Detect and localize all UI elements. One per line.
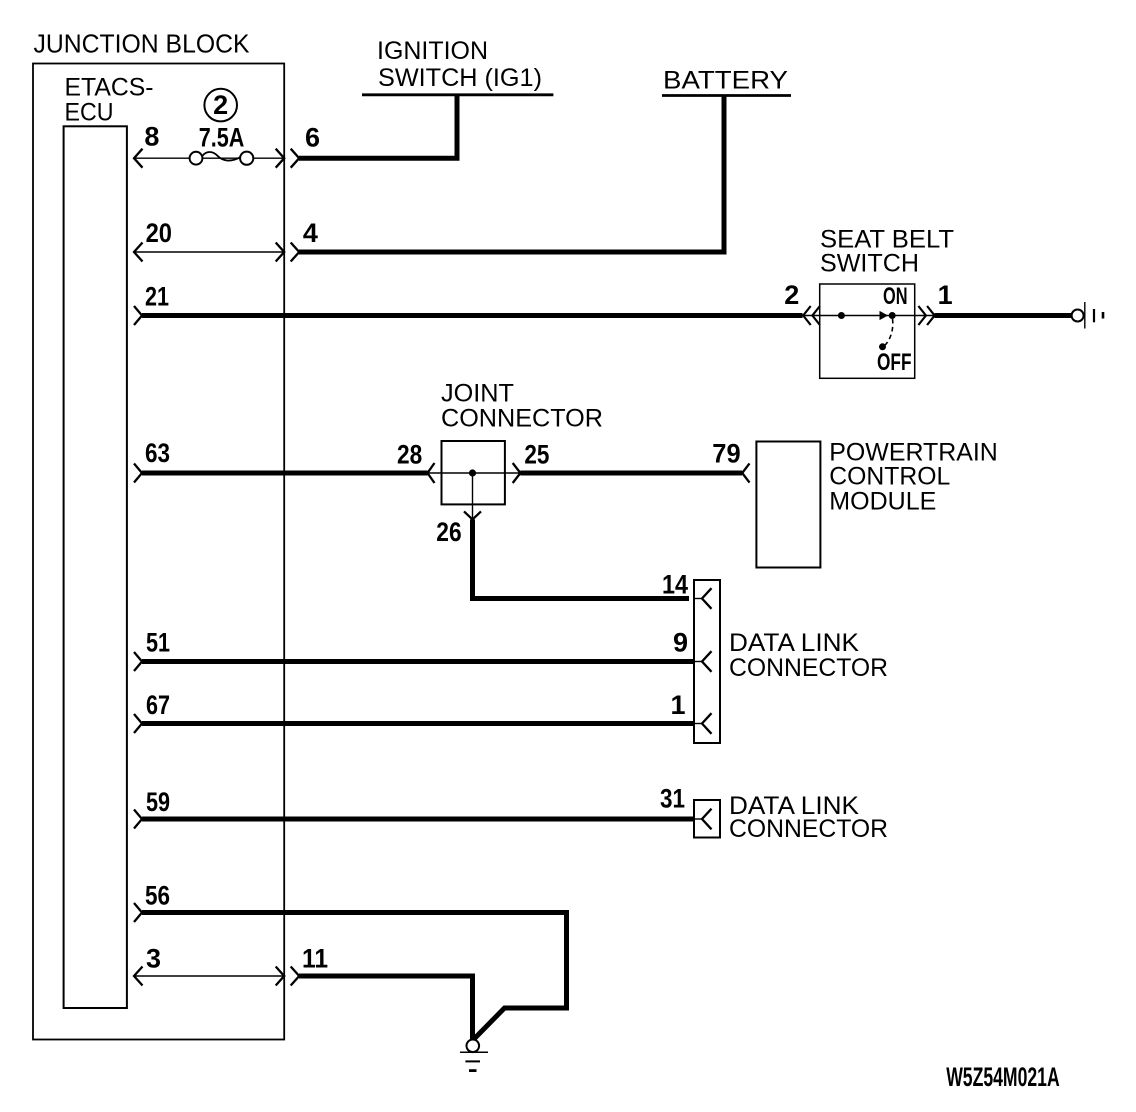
switch contact dot ON xyxy=(889,312,896,319)
data link connector box C2 xyxy=(694,580,720,743)
arrowhead joint connector pin 28 xyxy=(428,463,435,483)
thick wire pin 4 to battery xyxy=(299,96,724,253)
svg-text:26: 26 xyxy=(436,517,461,547)
thick wire pin 51 to DLC pin 9 xyxy=(142,659,694,664)
svg-text:CONTROL: CONTROL xyxy=(829,463,950,491)
svg-text:CONNECTOR: CONNECTOR xyxy=(729,815,888,843)
arrowhead DLC pin 1 xyxy=(694,723,702,725)
joint connector junction dot xyxy=(469,469,476,476)
thin wire joint connector pin 26 xyxy=(472,476,474,519)
svg-text:DATA LINK: DATA LINK xyxy=(729,629,859,657)
pin 51 chevron at ETACS xyxy=(134,652,142,671)
wire pin20 to junction-block edge xyxy=(134,251,284,253)
thin wire through joint connector xyxy=(428,472,521,474)
thin wire through seat belt switch xyxy=(803,315,936,317)
thick wire pin 67 to DLC pin 1 xyxy=(142,721,694,726)
thick wire pin 11 to ground xyxy=(299,976,473,1039)
arrowhead pin 26 xyxy=(464,511,481,519)
svg-text:21: 21 xyxy=(145,282,169,312)
svg-text:56: 56 xyxy=(145,881,170,911)
svg-text:20: 20 xyxy=(146,218,172,248)
junction block box xyxy=(33,64,284,1040)
arrowhead at ETACS pin 8 xyxy=(134,149,143,168)
arrowhead pair at junction-block edge (row 8) xyxy=(276,149,285,168)
wire pin8 to junction-block edge (fuse row) xyxy=(134,157,284,159)
svg-text:ETACS-: ETACS- xyxy=(65,74,154,102)
svg-text:7.5A: 7.5A xyxy=(199,123,245,153)
arrowhead pair at junction-block edge (row 3) xyxy=(276,967,285,986)
arrowhead at ETACS pin 3 xyxy=(134,967,143,986)
thick wire pin 63 to joint connector xyxy=(142,471,428,476)
thick wire pin 59 to data link connector pin 31 xyxy=(142,817,694,822)
svg-text:3: 3 xyxy=(146,944,161,974)
svg-text:28: 28 xyxy=(397,440,422,470)
thick wire pin 1 to ground xyxy=(935,313,1072,318)
dashed OFF throw xyxy=(884,319,893,346)
svg-text:8: 8 xyxy=(144,122,159,152)
svg-text:OFF: OFF xyxy=(877,349,912,376)
arrowhead joint connector pin 25 xyxy=(513,463,521,483)
svg-text:CONNECTOR: CONNECTOR xyxy=(441,405,603,433)
data link connector box C3 xyxy=(694,800,720,838)
ETACS-ECU box U1 xyxy=(64,126,127,1008)
fuse number circled 2 xyxy=(204,89,237,122)
arrowhead pair at junction-block edge (row 20) xyxy=(276,243,285,262)
svg-text:1: 1 xyxy=(671,690,686,720)
svg-text:IGNITION: IGNITION xyxy=(377,37,488,65)
svg-text:9: 9 xyxy=(673,628,688,658)
svg-text:JOINT: JOINT xyxy=(441,380,514,408)
svg-text:51: 51 xyxy=(146,628,170,658)
wire pin3 to junction-block edge xyxy=(134,975,284,977)
fuse F2 7.5A xyxy=(190,152,203,165)
body ground (right) xyxy=(1072,310,1084,322)
inline connector chevrons left of seat belt switch xyxy=(803,306,811,325)
pin 21 chevron at ETACS xyxy=(134,306,142,325)
thick wire pin 25 to PCM pin 79 xyxy=(520,471,742,476)
svg-text:59: 59 xyxy=(146,787,170,817)
svg-text:2: 2 xyxy=(213,90,228,120)
switch contact dot OFF xyxy=(879,343,886,350)
switch contact dot left xyxy=(838,312,845,319)
thick wire pin 26 to data link connector pin 14 xyxy=(473,519,690,598)
svg-text:11: 11 xyxy=(302,944,328,974)
svg-text:JUNCTION BLOCK: JUNCTION BLOCK xyxy=(34,28,251,58)
thick wire pin 6 to ignition switch xyxy=(299,95,457,158)
ground xyxy=(467,1040,480,1053)
svg-text:79: 79 xyxy=(712,439,740,469)
ignition switch terminal bar xyxy=(362,93,553,96)
pin 56 chevron at ETACS xyxy=(134,903,142,922)
svg-text:ECU: ECU xyxy=(65,99,114,127)
svg-text:25: 25 xyxy=(524,440,549,470)
svg-text:SWITCH (IG1): SWITCH (IG1) xyxy=(378,64,542,92)
svg-text:BATTERY: BATTERY xyxy=(663,67,788,95)
svg-text:2: 2 xyxy=(784,280,799,310)
pin 67 chevron at ETACS xyxy=(134,714,142,733)
arrowhead DLC pin 31 xyxy=(694,818,702,820)
powertrain control module box U2 xyxy=(756,442,820,568)
battery terminal bar xyxy=(662,94,791,97)
pin 59 chevron at ETACS xyxy=(134,810,142,829)
joint connector box C1 xyxy=(442,441,505,504)
svg-text:31: 31 xyxy=(660,784,685,814)
svg-text:ON: ON xyxy=(883,283,908,310)
arrowhead DLC pin 14 xyxy=(694,598,702,600)
svg-text:6: 6 xyxy=(305,123,320,153)
switch wiper triangle xyxy=(880,311,889,320)
svg-text:67: 67 xyxy=(146,690,170,720)
svg-text:MODULE: MODULE xyxy=(829,488,936,516)
svg-text:CONNECTOR: CONNECTOR xyxy=(729,654,888,682)
svg-text:SWITCH: SWITCH xyxy=(820,250,919,278)
inline connector chevrons right of seat belt switch xyxy=(918,306,926,325)
svg-text:4: 4 xyxy=(303,218,318,248)
thick wire pin 56 to ground xyxy=(142,913,567,1039)
arrowhead DLC pin 9 xyxy=(694,661,702,663)
seat belt switch box S1 xyxy=(820,284,915,378)
svg-text:W5Z54M021A: W5Z54M021A xyxy=(946,1062,1059,1092)
arrowhead PCM pin 79 xyxy=(742,463,749,482)
pin 63 chevron at ETACS xyxy=(134,464,142,483)
arrowhead at ETACS pin 20 xyxy=(134,243,143,262)
svg-text:63: 63 xyxy=(145,438,170,468)
svg-text:1: 1 xyxy=(938,280,953,310)
thick wire pin 21 to seat belt switch xyxy=(142,313,803,318)
svg-text:14: 14 xyxy=(662,570,688,600)
